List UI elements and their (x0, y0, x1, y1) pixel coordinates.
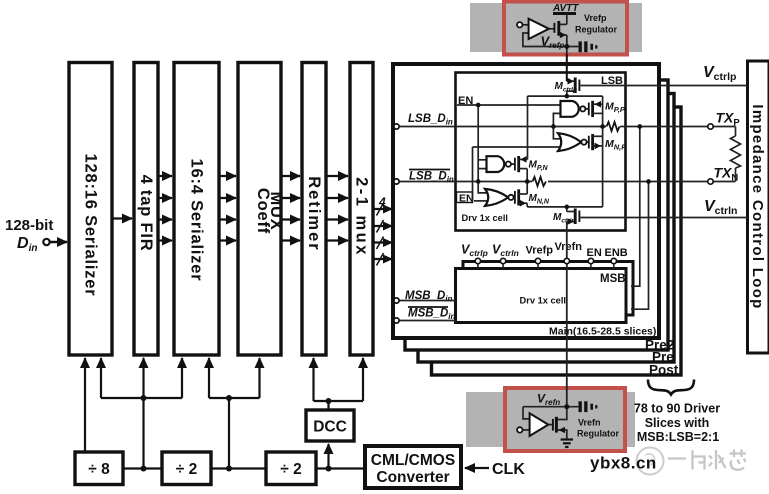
svg-text:Impedance Control Loop: Impedance Control Loop (749, 104, 766, 309)
svg-text:EN: EN (459, 193, 474, 205)
svg-text:ENB: ENB (605, 247, 628, 259)
svg-text:78 to 90 Driver: 78 to 90 Driver (634, 402, 720, 416)
svg-text:16:4 Serializer: 16:4 Serializer (188, 159, 206, 282)
svg-text:Post: Post (649, 363, 679, 378)
svg-text:4 tap FIR: 4 tap FIR (137, 175, 155, 252)
svg-text:Vrefn: Vrefn (555, 241, 583, 253)
svg-text:128:16 Serializer: 128:16 Serializer (82, 154, 100, 297)
svg-text:2-1 mux: 2-1 mux (353, 177, 371, 257)
svg-text:Converter: Converter (376, 469, 449, 486)
svg-text:EN: EN (587, 247, 602, 259)
svg-text:Slices with: Slices with (645, 416, 710, 430)
svg-text:ybx8.cn: ybx8.cn (590, 454, 657, 473)
svg-text:CML/CMOS: CML/CMOS (371, 452, 455, 469)
svg-text:÷ 2: ÷ 2 (176, 461, 197, 478)
svg-text:Regulator: Regulator (577, 429, 620, 439)
svg-text:MSB: MSB (600, 273, 626, 285)
svg-text:Vrefp: Vrefp (584, 13, 607, 23)
svg-text:MSB:LSB=2:1: MSB:LSB=2:1 (637, 430, 719, 444)
svg-text:Vrefn: Vrefn (578, 418, 601, 428)
svg-text:128-bit: 128-bit (5, 217, 53, 234)
svg-text:÷ 8: ÷ 8 (88, 461, 110, 478)
svg-text:CLK: CLK (492, 461, 525, 478)
svg-text:Drv 1x cell: Drv 1x cell (462, 213, 509, 223)
svg-text:4: 4 (378, 195, 386, 209)
svg-text:DCC: DCC (313, 419, 347, 436)
svg-text:÷ 2: ÷ 2 (280, 461, 301, 478)
svg-text:Drv 1x cell: Drv 1x cell (520, 296, 567, 306)
svg-text:Vrefp: Vrefp (526, 245, 554, 257)
svg-text:Main(16.5-28.5 slices): Main(16.5-28.5 slices) (549, 326, 656, 338)
svg-text:Regulator: Regulator (575, 25, 618, 35)
svg-text:Retimer: Retimer (305, 176, 323, 251)
